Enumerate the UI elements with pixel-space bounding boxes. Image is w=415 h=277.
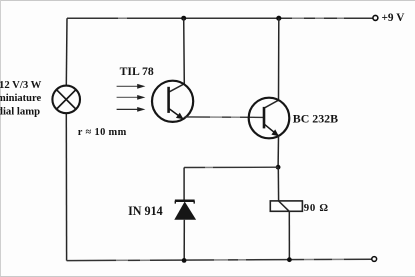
node: mid junction xyxy=(276,165,281,170)
node: diode bottom junction xyxy=(182,258,187,263)
scan edge border bottom xyxy=(0,276,415,277)
wire: BC232B collector drop xyxy=(265,18,279,108)
node: top rail junction to BC232B collector xyxy=(276,16,281,21)
wire: lamp to bottom-left corner xyxy=(65,113,67,261)
phototransistor U1 TIL 78 circle xyxy=(152,81,193,122)
node: top rail junction to TIL78 collector xyxy=(181,16,186,21)
scan edge border left xyxy=(0,0,1,277)
light arrow 2 xyxy=(117,96,139,98)
wire: relay to bottom rail xyxy=(288,211,290,259)
wire fade patches (scan artifact imitation) xyxy=(116,17,344,263)
svg-text:90 Ω: 90 Ω xyxy=(304,202,329,214)
light arrow 1 xyxy=(117,85,139,87)
wire: diode to bottom rail xyxy=(183,220,185,261)
diode D1 IN914 triangle (anode, pointing up) xyxy=(174,202,196,220)
relay coil K1 90ohm box xyxy=(270,201,302,211)
light arrow 3 xyxy=(117,108,139,110)
relay diagonal xyxy=(279,201,290,211)
svg-text:+9 V: +9 V xyxy=(382,12,406,24)
svg-text:r ≈ 10 mm: r ≈ 10 mm xyxy=(78,127,127,138)
svg-text:IN 914: IN 914 xyxy=(128,204,163,218)
wire: TIL78 emitter to BC232B base xyxy=(185,116,265,119)
BC 232B emitter with arrow xyxy=(264,124,278,136)
svg-text:miniature: miniature xyxy=(0,93,41,104)
diode D1 IN914 cathode bar xyxy=(175,199,195,202)
wire: TIL78 collector drop xyxy=(169,18,184,92)
terminal +9V open circle xyxy=(373,15,378,20)
lamp: 12V/3W dial lamp circle with X xyxy=(52,86,80,114)
wire: mid horizontal to diode xyxy=(184,166,278,168)
wire: BC232B emitter down to mid junction xyxy=(277,136,279,167)
TIL 78 base bar xyxy=(167,87,170,113)
wire: mid junction down to relay xyxy=(277,167,279,201)
svg-text:BC 232B: BC 232B xyxy=(293,111,338,125)
svg-text:dial lamp: dial lamp xyxy=(0,105,40,117)
wire: left vertical (top rail to lamp) xyxy=(65,18,68,86)
svg-text:TIL 78: TIL 78 xyxy=(120,65,154,78)
svg-text:12 V/3 W: 12 V/3 W xyxy=(0,79,42,91)
scan edge border top xyxy=(0,0,415,1)
transistor Q1 BC 232B circle xyxy=(249,98,290,139)
wire: +9V top rail xyxy=(67,17,373,19)
terminal bottom-right open circle xyxy=(372,257,377,262)
TIL 78 emitter with arrow xyxy=(169,109,183,119)
node: relay bottom junction xyxy=(287,257,292,262)
wire: down to diode xyxy=(183,168,185,200)
BC 232B base bar xyxy=(263,107,266,128)
wire: bottom rail xyxy=(67,259,372,260)
